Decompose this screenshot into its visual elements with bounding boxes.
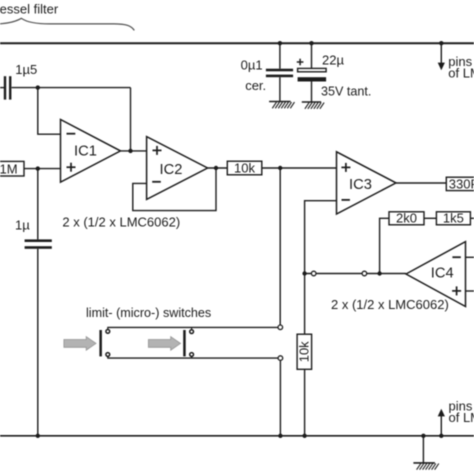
junction ground tap	[421, 434, 425, 438]
junction node D2	[377, 271, 381, 275]
svg-text:22µ: 22µ	[322, 53, 344, 68]
plus sign 22µ	[297, 59, 304, 66]
wire 1M to IC1 non-inverting input	[24, 168, 61, 170]
junction 22µ on V+ rail	[309, 41, 313, 45]
V+ rail	[0, 42, 474, 44]
svg-text:2 x (1/2 x LMC6062): 2 x (1/2 x LMC6062)	[331, 297, 449, 312]
wire node C down to connector	[279, 168, 281, 325]
connector pin lower	[278, 356, 283, 361]
wire IC2 feedback loop	[133, 168, 216, 211]
capacitor 1µ	[25, 239, 52, 248]
svg-text:1µ: 1µ	[15, 218, 30, 233]
connector pin mid right	[362, 271, 367, 276]
wire V+ rail to 0µ1	[279, 43, 281, 68]
wire connector lower to ground rail	[279, 360, 281, 435]
junction node C	[278, 166, 282, 170]
wire IC3 output	[396, 182, 446, 184]
node A junction	[36, 85, 40, 89]
svg-text:of LMC: of LMC	[449, 410, 474, 425]
wire switch bottom rail	[107, 357, 278, 359]
wire node D down to 10k vertical	[304, 274, 306, 335]
svg-text:IC1: IC1	[74, 144, 97, 160]
wire cap 1µ5 to feedback corner	[12, 87, 131, 89]
switch S2 bottom contact	[190, 353, 194, 359]
junction IC1 output	[128, 149, 132, 153]
svg-text:10k: 10k	[297, 341, 312, 362]
junction on ground rail below 1µ	[36, 434, 40, 438]
svg-text:330R: 330R	[449, 176, 474, 191]
wire IC2 output to 10k	[208, 167, 228, 169]
wire IC4 inverting input to edge	[466, 256, 474, 258]
switch S1 actuator bar	[99, 330, 102, 356]
switch S1 top contact	[106, 327, 110, 333]
switch S1 bottom contact	[106, 353, 110, 359]
resistor 1k5	[436, 211, 470, 226]
svg-text:limit- (micro-) switches: limit- (micro-) switches	[86, 306, 211, 320]
svg-text:of LMC: of LMC	[448, 66, 474, 81]
connector pin mid left	[311, 271, 316, 276]
ground symbol 22µ	[302, 102, 324, 109]
wire IC1 feedback vertical	[130, 88, 132, 151]
wire 10k vertical to ground rail	[304, 369, 306, 436]
wire 22µ to ground symbol	[311, 82, 313, 103]
wire node D to IC4 input	[305, 273, 406, 275]
wire 1k5 to edge	[470, 217, 474, 219]
ground symbol 0µ1	[269, 102, 294, 109]
wire 10k to IC3 non-inverting input	[262, 167, 337, 169]
svg-text:Bessel filter: Bessel filter	[0, 2, 59, 17]
op-amp IC2	[147, 137, 208, 200]
connector pin upper	[278, 325, 283, 330]
svg-text:IC2: IC2	[160, 162, 183, 178]
wire 2k0 to 1k5	[424, 217, 436, 219]
wire node A down to IC1 inverting input	[38, 88, 61, 135]
op-amp IC1	[61, 120, 121, 183]
wire IC1 output to IC2	[121, 150, 147, 152]
wire V+ rail to 22µ	[311, 43, 313, 68]
svg-text:0µ1: 0µ1	[241, 57, 263, 72]
wire IC3 inverting input down to node D	[305, 201, 337, 274]
switch S2 actuator bar	[183, 330, 186, 356]
capacitor 1µ5	[0, 76, 11, 99]
actuation arrow 2	[148, 337, 180, 351]
resistor 1M	[0, 161, 24, 176]
node B junction	[36, 166, 40, 170]
ground symbol bottom	[413, 463, 438, 470]
junction ground pins tap	[439, 434, 443, 438]
brace	[0, 18, 134, 30]
wire ground tap down	[422, 436, 424, 463]
junction IC2 output	[214, 166, 218, 170]
resistor 10k horizontal	[227, 161, 261, 176]
resistor 10k vertical	[297, 334, 312, 369]
wire switch top rail	[107, 326, 278, 328]
junction connector ground rail	[278, 434, 282, 438]
svg-text:35V tant.: 35V tant.	[321, 85, 371, 99]
wire 2k0 down to node D2	[380, 218, 389, 273]
op-amp IC4	[406, 242, 466, 307]
wire capacitor 1µ to ground rail	[37, 249, 39, 436]
op-amp IC3	[337, 152, 397, 214]
arrow ground pins up	[438, 409, 445, 436]
resistor 330R	[446, 176, 474, 191]
ground rail	[0, 435, 474, 437]
capacitor 0µ1	[266, 69, 293, 78]
svg-text:IC3: IC3	[349, 177, 372, 193]
junction V+ pins tap	[439, 41, 443, 45]
svg-text:1µ5: 1µ5	[15, 62, 37, 77]
wire 0µ1 to ground symbol	[279, 77, 281, 101]
svg-text:1k5: 1k5	[443, 211, 464, 226]
actuation arrow 1	[64, 337, 96, 351]
wire IC4 non-inverting input to edge	[466, 290, 474, 292]
wire node B down to capacitor 1µ	[37, 169, 39, 240]
capacitor 22µ	[298, 68, 327, 81]
svg-text:2k0: 2k0	[396, 211, 417, 226]
arrow V+ pins down	[438, 43, 445, 70]
junction node D	[302, 271, 306, 275]
junction 10k ground rail	[302, 434, 306, 438]
svg-text:1M: 1M	[0, 161, 18, 176]
svg-text:2 x (1/2 x LMC6062): 2 x (1/2 x LMC6062)	[62, 214, 180, 229]
junction 0µ1 on V+ rail	[278, 41, 282, 45]
switch S2 top contact	[190, 327, 194, 333]
svg-text:IC4: IC4	[431, 265, 454, 281]
svg-text:10k: 10k	[234, 161, 255, 176]
svg-text:cer.: cer.	[245, 78, 266, 93]
resistor 2k0	[389, 211, 424, 226]
